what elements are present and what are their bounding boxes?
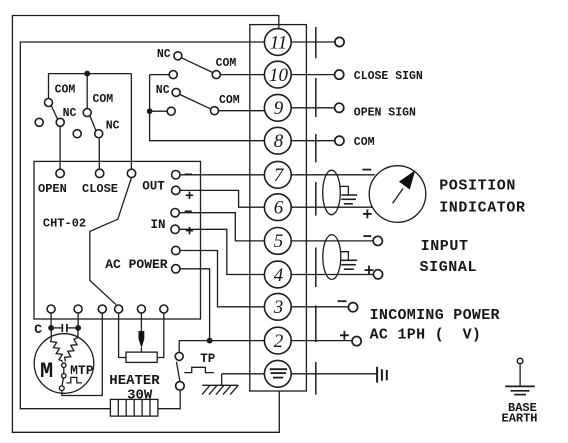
switch S1 NC contact [56,118,64,126]
switch S4 arm [180,94,212,109]
svg-text:POSITION: POSITION [439,177,516,194]
connector bar terminals 5-4 [315,248,317,288]
switch S1 arm [51,106,58,120]
svg-text:10: 10 [269,65,289,86]
svg-text:NC: NC [63,107,77,120]
svg-text:OPEN: OPEN [38,182,67,196]
junction dot cap left [49,326,54,331]
control unit box CHT-02 [34,161,201,319]
cam pivot terminal [127,169,135,177]
earth termination bars [377,367,387,383]
wire terminal 7 right to indicator [291,174,375,176]
switch S2 arm [90,116,96,131]
wire pot right lead [157,313,164,358]
switch S4 NC contact [172,88,180,96]
connector bar terminal 8 [315,134,317,162]
MTP contact middle [62,374,66,378]
wire chassis ground riser [221,374,223,386]
shield ground step position indicator [340,186,348,194]
wire terminal 2 rail (AC POWER 2 / TP) [180,269,210,341]
sign plus IN [186,227,193,234]
terminal 7 [264,161,291,188]
switch S3 NC contact [174,52,182,60]
terminal 9 [264,94,291,121]
svg-text:9: 9 [274,98,284,119]
wire S1 NC to OPEN terminal [59,126,61,169]
IN plus terminal [171,225,179,233]
meter needle tail [393,189,403,204]
open terminal circle 11 [335,37,344,46]
shield ground bars input signal [341,260,357,269]
svg-text:CLOSE SIGN: CLOSE SIGN [354,70,423,83]
wire terminal 4 right [291,274,373,276]
wire terminal 7 left (OUT-) [180,174,265,176]
capacitor C plates [62,324,67,332]
wire terminal 5 right [291,240,373,242]
wire limit switch top rail [49,73,132,75]
open terminal circle input minus [373,236,382,245]
svg-text:CHT-02: CHT-02 [43,217,86,231]
terminal 2 [264,327,291,354]
svg-text:5: 5 [274,231,284,252]
OPEN input terminal [56,169,64,177]
connector bar terminals 10-9 [315,78,317,117]
switch S1 NO contact (unwired) [35,118,43,126]
shield ellipse position indicator [323,170,341,215]
box bottom terminal 6 (pot right) [160,305,168,313]
MTP switch arm [62,378,63,385]
wire bus top to switch 1 contact [150,74,170,76]
wire terminal 3 left (AC POWER 1) [180,251,265,307]
open terminal circle power minus [348,303,357,312]
BASE EARTH symbol circle [517,358,523,364]
switch S3 left contact [169,71,177,79]
wire into motor right winding [77,328,79,338]
svg-text:CLOSE: CLOSE [82,182,118,196]
shield ground step input signal [341,252,349,260]
switch S2 NC contact [95,130,103,138]
svg-text:INDICATOR: INDICATOR [439,199,525,216]
switch S4 left contact [167,107,175,115]
wire between MTP contacts [63,368,65,373]
heater body segment lines [118,399,150,416]
wire rail to cam pivot [130,74,132,170]
svg-text:8: 8 [274,131,284,152]
wire terminal 8 left (bus from NC switches) [150,75,265,141]
svg-text:6: 6 [274,198,284,219]
terminal 4 [264,261,291,288]
sign minus terminal 5 [363,235,371,237]
meter needle arrowhead [399,170,415,189]
cam linkage polyline [90,178,132,305]
sign minus terminal 3 [338,300,347,302]
chassis ground bar [202,384,238,386]
svg-text:EARTH: EARTH [502,411,538,425]
sign plus terminal 4 [365,266,374,275]
svg-text:3: 3 [273,297,284,318]
connector bar terminals 7-6 [315,182,317,216]
open terminal circle OPEN SIGN [335,103,344,112]
wire terminal 11 / heater bus (left inner loop) [20,42,264,409]
wire cap left [50,313,52,328]
OUT minus terminal [172,171,180,179]
terminal strip box [250,25,307,391]
svg-text:OUT: OUT [142,179,165,193]
junction dot on rail [85,71,90,76]
open terminal circle power plus [352,337,361,346]
BASE EARTH ground bars [505,386,535,394]
wiper arrow tip line [140,348,142,352]
connector bar earth [315,362,317,395]
AC POWER terminal 2 [172,265,180,273]
terminal 3 [264,293,291,320]
MTP contact upper [62,363,66,367]
wire terminal 5 left (IN-) [179,213,264,241]
svg-text:INCOMING POWER: INCOMING POWER [370,307,500,324]
AC POWER terminal 1 [172,246,180,254]
connector bar terminals 3-2 [315,305,317,342]
TP switch arm [176,362,180,382]
box bottom terminal 4 (pot left) [115,305,123,313]
wire earth terminal left [222,373,265,375]
wire terminal 9 right [291,107,335,109]
switch S3 COM contact [212,71,220,79]
motor winding left (zigzag) [51,338,63,362]
position indicator meter circle [369,166,426,223]
terminal 6 [264,194,291,221]
wire terminal 2 right [291,340,352,342]
junction dot cap right [76,326,81,331]
BASE EARTH stem [519,364,521,386]
terminal earth (circle with bars) [264,360,291,387]
switch S2 NO contact (unwired) [73,130,81,138]
junction dot AC/TP rail [207,338,212,343]
wire cap right [77,313,79,328]
svg-text:4: 4 [274,265,284,286]
wire heater right to TP [158,391,180,409]
wire stem to CLOSE switch COM [86,74,88,109]
MTP thermal step symbol [66,377,82,383]
OUT plus terminal [172,186,180,194]
wire terminal 11 right [291,41,335,43]
sign minus terminal 7 [362,169,371,171]
sign plus terminal 6 [363,210,372,219]
svg-text:MTP: MTP [70,363,94,378]
motor winding right (zigzag) [65,338,78,362]
wire pot left lead [119,313,126,358]
terminal 10 [264,61,291,88]
shield ground bars position indicator [341,195,357,204]
open terminal circle CLOSE SIGN [335,70,344,79]
svg-text:C: C [34,322,42,337]
wire terminal 6 right to indicator [291,206,373,208]
svg-text:7: 7 [274,165,285,186]
open terminal circle COM [335,136,344,145]
svg-text:INPUT: INPUT [421,238,469,255]
svg-text:AC POWER: AC POWER [105,257,168,272]
open terminal circle input plus [373,270,382,279]
svg-text:OPEN SIGN: OPEN SIGN [354,106,416,119]
sign plus OUT [186,192,193,199]
terminal 5 [264,228,291,255]
capacitor C leads [51,327,78,329]
svg-text:11: 11 [270,32,288,53]
svg-text:COM: COM [55,83,76,96]
wire motor common out [62,313,103,396]
sign plus terminal 2 [340,331,349,340]
connector bar terminal 11 [315,27,317,58]
wire TP rail to terminal 2 [179,341,264,353]
sign minus OUT [185,173,192,175]
box bottom terminal 1 (motor cap left) [47,305,55,313]
wire terminal 10 left (from switch COM) [220,74,264,76]
svg-text:NC: NC [106,119,120,132]
wire terminal 9 left (from switch COM) [219,110,265,112]
switch S2 COM contact [83,109,91,117]
svg-text:TP: TP [200,352,215,366]
terminal 11 [264,29,291,56]
wire earth terminal right [291,373,377,375]
potentiometer body [126,352,157,362]
TP lower contact [176,382,185,391]
svg-text:IN: IN [151,218,166,232]
svg-text:M: M [40,359,53,384]
wire terminal 8 right [291,140,335,142]
shield ellipse input signal [323,235,341,280]
svg-text:NC: NC [156,84,170,97]
chassis ground hatches [202,385,238,394]
svg-text:30W: 30W [127,387,153,403]
wire into motor left winding [50,328,52,338]
wire terminal 6 left (OUT+) [180,190,265,207]
TP upper contact [175,352,183,360]
wire bus branch to switch 2 [150,110,168,112]
box bottom terminal 3 (motor common) [98,305,106,313]
CLOSE input terminal [95,169,103,177]
box bottom terminal 5 (pot wiper) [137,305,145,313]
svg-text:COM: COM [216,57,237,70]
box bottom terminal 2 (motor cap right) [74,305,82,313]
terminal 8 [264,127,291,154]
svg-text:NC: NC [157,48,171,61]
junction bus dot [147,109,151,113]
wire terminal 3 right [291,306,348,308]
svg-text:SIGNAL: SIGNAL [420,259,478,276]
svg-text:AC 1PH ( V): AC 1PH ( V) [370,326,482,343]
wire enclosure loop (top/left/bottom) to terminal 11 and strip bottom [12,16,279,433]
wire pot wiper lead [140,313,142,331]
TP thermal step symbol [184,367,214,372]
switch S4 COM contact [211,107,219,115]
IN minus terminal [171,209,179,217]
svg-text:COM: COM [93,93,114,106]
switch S3 arm [181,58,213,73]
switch S1 COM contact [45,99,53,107]
svg-text:COM: COM [219,94,240,107]
motor circle M [34,334,94,394]
pot wiper arrow [139,331,145,348]
wire stem to OPEN switch COM [48,74,50,99]
sign minus IN [185,210,192,212]
svg-text:COM: COM [354,136,375,149]
wire S2 NC to CLOSE terminal [98,138,100,170]
wire terminal 10 right [291,74,335,76]
heater resistor body [110,399,157,416]
MTP contact lower [59,386,64,391]
wire terminal 4 left (IN+) [179,229,264,274]
svg-text:2: 2 [274,331,284,352]
